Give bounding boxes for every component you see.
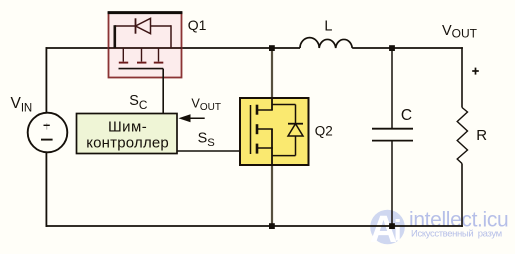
wire: Q2 source branch [271, 164, 273, 226]
svg-text:Q2: Q2 [315, 123, 333, 138]
wire: left vertical upper [45, 47, 47, 114]
wire: right vertical upper [461, 47, 463, 107]
resistor R [457, 108, 467, 164]
mosfet symbol Q2 [251, 98, 273, 165]
capacitor C [372, 129, 413, 141]
wire: Q1 gate to controller Sc [162, 69, 164, 114]
svg-text:Шим-: Шим- [108, 119, 147, 136]
Vout feedback arrow [179, 114, 205, 122]
node junction bottom-left [269, 223, 275, 229]
transistor Q1 box [108, 13, 183, 78]
diode D2 (in Q2) [272, 105, 303, 156]
wire: Ss to Q2 gate [177, 150, 251, 152]
svg-text:L: L [324, 18, 332, 34]
wire: top rail right (inductor to Vout corner) [352, 47, 463, 49]
label plus polarity [472, 68, 479, 75]
wire: left vertical lower [45, 152, 47, 227]
wire: top rail left (Vin to inductor) [46, 47, 301, 49]
wire: bottom rail [46, 225, 463, 227]
svg-text:i: i [394, 215, 402, 248]
transistor Q2 box [240, 98, 309, 165]
wire: drain-source path through Q1 [109, 47, 182, 49]
svg-text:Искусственный разум: Искусственный разум [411, 229, 502, 240]
diode D1 (in Q1) [115, 18, 171, 48]
svg-text:контроллер: контроллер [86, 135, 169, 152]
svg-text:R: R [476, 127, 487, 144]
svg-text:Q1: Q1 [188, 17, 207, 33]
PWM controller box U1 [77, 114, 178, 154]
node junction top-left [269, 45, 275, 51]
voltage source VIN [28, 113, 68, 153]
inductor L [300, 38, 352, 48]
wire: capacitor branch lower [391, 141, 393, 226]
wire: Q2 drain branch [271, 48, 273, 99]
mosfet symbol Q1 [119, 48, 164, 69]
wire: right vertical lower [461, 164, 463, 227]
node junction bottom-right [389, 223, 395, 229]
node junction top-right [389, 45, 395, 51]
watermark logo intellect.icu [370, 209, 509, 252]
wire: capacitor branch upper [391, 48, 393, 129]
svg-text:C: C [401, 107, 412, 124]
